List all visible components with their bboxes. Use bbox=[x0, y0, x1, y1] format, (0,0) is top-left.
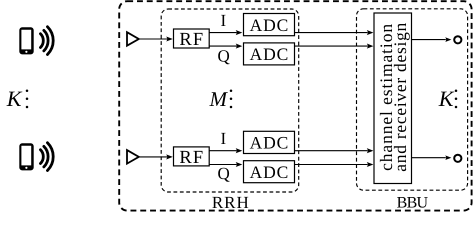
wire I rail bottom (RF2 to BBU) bbox=[209, 150, 237, 152]
svg-text:RRH: RRH bbox=[212, 193, 250, 212]
BBU processing box (channel estimation and receiver design) bbox=[374, 13, 412, 184]
RRH dashed enclosure bbox=[161, 9, 299, 192]
output terminal top (circle) bbox=[454, 36, 461, 43]
svg-text:I: I bbox=[220, 129, 226, 148]
output wire bottom bbox=[412, 157, 446, 159]
vdots left bbox=[26, 89, 29, 108]
svg-text:RF: RF bbox=[179, 30, 204, 50]
svg-text:K: K bbox=[6, 86, 23, 111]
phone terminal 2 (bottom) bbox=[19, 143, 33, 170]
svg-text:ADC: ADC bbox=[250, 15, 290, 35]
radio waves of phone 1 bbox=[40, 27, 53, 55]
BBU dashed enclosure bbox=[357, 9, 468, 190]
svg-text:K: K bbox=[438, 86, 455, 111]
ADC box 3 bbox=[244, 131, 295, 153]
svg-text:ADC: ADC bbox=[250, 133, 290, 153]
wire antenna1 to RF1 bbox=[139, 38, 167, 40]
wire Q rail top (RF1 to BBU) bbox=[209, 45, 237, 47]
svg-text:ADC: ADC bbox=[250, 162, 290, 182]
phone terminal 1 (top) bbox=[19, 27, 33, 54]
ADC box 4 bbox=[244, 161, 295, 183]
wire I rail top (RF1 to BBU) bbox=[209, 32, 237, 34]
RF box 1 bbox=[174, 29, 210, 48]
output wire top bbox=[412, 39, 446, 41]
wire antenna2 to RF2 bbox=[139, 156, 167, 158]
svg-text:I: I bbox=[220, 11, 226, 30]
svg-text:ADC: ADC bbox=[250, 44, 290, 64]
svg-text:Q: Q bbox=[218, 46, 230, 65]
antenna 1 (top) bbox=[127, 32, 139, 46]
wire Q rail bottom (RF2 to BBU) bbox=[209, 164, 237, 166]
ADC box 2 bbox=[244, 43, 295, 65]
antenna 2 (bottom) bbox=[127, 150, 139, 164]
output terminal bottom (circle) bbox=[454, 155, 461, 162]
svg-text:and receiver design: and receiver design bbox=[390, 22, 410, 171]
svg-text:M: M bbox=[209, 87, 229, 111]
ADC box 1 bbox=[244, 14, 295, 36]
svg-text:BBU: BBU bbox=[397, 195, 429, 212]
vdots right bbox=[455, 89, 458, 108]
svg-text:RF: RF bbox=[179, 148, 204, 168]
svg-text:Q: Q bbox=[218, 164, 230, 183]
outer dashed enclosure (base station) bbox=[119, 1, 471, 210]
RF box 2 bbox=[174, 147, 210, 166]
vdots middle bbox=[230, 89, 233, 108]
radio waves of phone 2 bbox=[40, 143, 53, 171]
